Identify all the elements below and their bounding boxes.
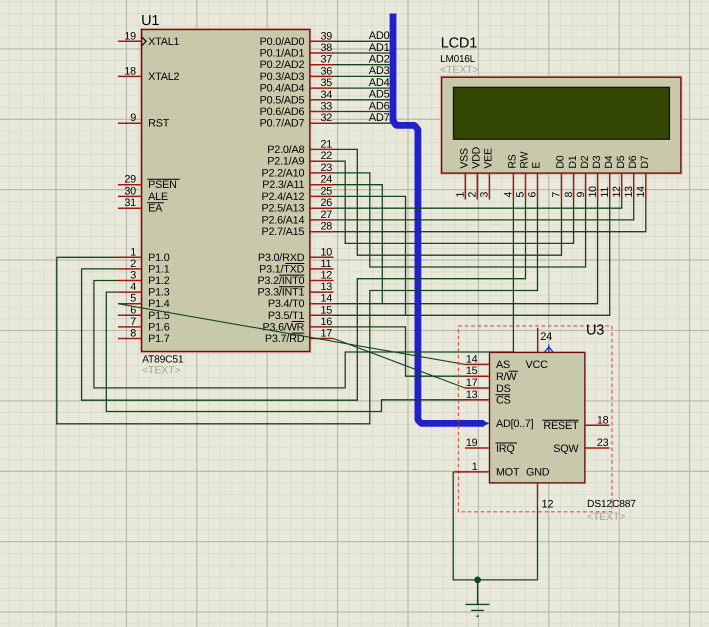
wire AD4 from P0.4 to bus [334,87,392,89]
U1 pin 27 P2.6/A14 stub [310,219,334,221]
LCD pin 7 D0 stub [561,173,563,199]
svg-text:14: 14 [466,353,478,365]
svg-text:2: 2 [130,258,136,270]
U1 pin 31 EA stub [118,207,142,209]
U1 pin 14 P3.4/T0 stub [310,303,334,305]
microcontroller U1 AT89C51 body [140,28,311,352]
svg-text:19: 19 [124,30,136,42]
svg-text:P2.1/A9: P2.1/A9 [267,156,304,168]
svg-text:6: 6 [527,192,539,198]
LCD pin 12 D5 stub [621,173,623,199]
U1 pin 23 P2.2/A10 stub [310,172,334,174]
svg-text:24: 24 [540,331,552,343]
svg-text:3: 3 [479,192,491,198]
svg-text:P2.7/A15: P2.7/A15 [261,226,304,238]
LCD1 screen [454,87,670,139]
svg-text:4: 4 [503,192,515,198]
svg-text:GND: GND [526,467,550,479]
svg-text:13: 13 [321,281,333,293]
U1 pin 37 P0.2/AD2 stub [310,64,334,66]
svg-text:P3.5/T1: P3.5/T1 [268,310,305,322]
svg-text:32: 32 [321,112,333,124]
svg-text:28: 28 [321,221,333,233]
LCD pin 2 VDD stub [476,173,478,199]
svg-text:P2.3/A11: P2.3/A11 [262,179,304,191]
wire P1.1 loop to LCD RW [82,200,526,401]
LCD pin 10 D3 stub [597,173,599,199]
wire AD5 from P0.5 to bus [334,99,392,101]
U1 pin 1 P1.0 stub [118,256,142,258]
U1 pin 25 P2.4/A12 stub [310,195,334,197]
svg-text:8: 8 [130,328,136,340]
svg-text:13: 13 [466,389,478,401]
svg-text:AD4: AD4 [369,77,390,89]
U1 pin 33 P0.6/AD6 stub [310,111,334,113]
U1 pin 17 P3.7/RD stub [310,338,334,340]
svg-text:5: 5 [130,293,136,305]
svg-text:MOT: MOT [496,467,520,479]
svg-text:24: 24 [321,174,333,186]
svg-text:11: 11 [321,258,332,270]
svg-text:R/W: R/W [496,371,517,383]
svg-text:DS: DS [496,383,511,395]
U3 pin 19 IRQ stub [465,447,490,449]
U1 pin 11 P3.1/TXD stub [310,268,334,270]
wire P2 to LCD D3: right, down at x=382.3, level y=303.7 [334,185,598,304]
U1 pin 36 P0.3/AD3 stub [310,75,334,77]
svg-text:P1.3: P1.3 [148,287,170,299]
svg-text:E: E [531,162,543,169]
wire P3.5/T1 to LCD D4 level [334,314,406,316]
svg-text:D4: D4 [603,155,615,168]
svg-text:P3.4/T0: P3.4/T0 [268,298,305,310]
svg-text:P2.5/A13: P2.5/A13 [261,203,304,215]
svg-text:AD3: AD3 [369,65,390,77]
wire AD0 from P0.0 to bus [334,40,392,42]
svg-text:12: 12 [611,186,623,198]
svg-text:D1: D1 [567,155,579,168]
svg-text:1: 1 [455,192,467,198]
svg-text:P0.1/AD1: P0.1/AD1 [260,48,305,60]
svg-text:P1.6: P1.6 [148,321,170,333]
svg-text:P1.7: P1.7 [148,333,170,345]
wire P2 to LCD D2: right, down at x=369.8, level y=267.0 [334,173,586,267]
svg-text:AD6: AD6 [369,100,390,112]
LCD pin 1 VSS stub [464,173,466,199]
svg-text:DS12C887: DS12C887 [587,499,636,510]
svg-text:LCD1: LCD1 [441,36,477,52]
wire P2.7 straight to LCD D7 [334,200,646,232]
U1 pin 10 P3.0/RXD stub [310,256,334,258]
svg-text:23: 23 [597,437,609,449]
svg-text:23: 23 [321,162,333,174]
U3 pin 18 RESET stub [585,424,610,426]
U1 pin 2 P1.1 stub [118,268,142,270]
U3 selection dashed box [458,326,612,512]
svg-text:11: 11 [599,187,611,198]
wire diagonal P1.4 to U3 AS [118,304,465,365]
wire U3 MOT to ground rail [453,472,537,580]
svg-text:31: 31 [124,197,136,209]
U1 pin 19 XTAL1 stub [118,40,142,42]
svg-text:AS: AS [496,359,510,371]
svg-text:P2.0/A8: P2.0/A8 [267,144,304,156]
svg-text:15: 15 [321,304,333,316]
U1 pin 26 P2.5/A13 stub [310,207,334,209]
svg-text:15: 15 [466,365,478,377]
svg-text:EA: EA [148,203,163,215]
svg-text:8: 8 [563,192,575,198]
svg-text:P0.7/AD7: P0.7/AD7 [260,118,305,130]
svg-text:29: 29 [124,174,136,186]
LCD pin 9 D2 stub [585,173,587,199]
svg-text:AD7: AD7 [369,112,390,124]
junction dot on ground rail [474,577,481,584]
svg-text:9: 9 [575,192,587,198]
svg-text:36: 36 [321,65,333,77]
U1 pin 8 P1.7 stub [118,338,142,340]
XTAL1 clock chevron [142,37,147,46]
svg-text:U1: U1 [141,13,159,29]
svg-text:16: 16 [321,316,333,328]
svg-text:P1.1: P1.1 [148,263,170,275]
svg-text:12: 12 [321,270,333,282]
U1 pin 35 P0.4/AD4 stub [310,87,334,89]
svg-text:P0.5/AD5: P0.5/AD5 [260,94,305,106]
U1 pin 18 XTAL2 stub [118,75,142,77]
wire AD1 from P0.1 to bus [334,52,392,54]
svg-text:ALE: ALE [148,191,168,203]
svg-text:RS: RS [507,154,519,168]
svg-text:7: 7 [551,192,563,198]
U3 pin 24 VCC stub [537,328,539,353]
svg-text:14: 14 [321,293,333,305]
U1 pin 32 P0.7/AD7 stub [310,122,334,124]
svg-text:9: 9 [130,112,136,124]
LCD pin 8 D1 stub [573,173,575,199]
svg-text:IRQ: IRQ [496,443,515,455]
svg-text:1: 1 [130,246,136,258]
svg-text:CS: CS [496,395,511,407]
svg-text:10: 10 [321,246,333,258]
svg-text:P0.2/AD2: P0.2/AD2 [260,59,305,71]
svg-text:30: 30 [124,185,136,197]
power symbol at VCC [545,345,553,353]
svg-text:RST: RST [148,118,170,130]
wire P2 to LCD D1: right, down at x=345.2, level y=243.4 [334,161,574,243]
svg-text:P1.0: P1.0 [148,252,170,264]
U3 pin 23 SQW stub [585,447,610,449]
bus entry arrow into U3 AD[0..7] [482,420,490,427]
svg-text:26: 26 [321,197,333,209]
svg-text:P3.6/WR: P3.6/WR [262,321,304,333]
U1 pin 5 P1.4 stub [118,303,142,305]
U1 pin 9 RST stub [118,122,142,124]
svg-text:13: 13 [623,186,635,198]
svg-text:P0.0/AD0: P0.0/AD0 [260,36,305,48]
svg-text:P1.4: P1.4 [148,298,170,310]
svg-text:D5: D5 [615,155,627,168]
ground symbol [466,580,490,616]
U1 pin 4 P1.3 stub [118,291,142,293]
svg-text:AD[0..7]: AD[0..7] [496,418,534,430]
svg-text:RW: RW [519,151,531,168]
svg-text:<TEXT>: <TEXT> [142,365,180,377]
wire P1.3 loop to U3 CS [106,292,465,411]
svg-text:SQW: SQW [553,443,579,455]
U1 pin 16 P3.6/WR stub [310,326,334,328]
wire diagonal P3.7/RD to U3 DS [334,339,466,389]
svg-text:10: 10 [587,186,599,198]
wire U3 GND pin down to ground rail [537,498,539,580]
svg-text:<TEXT>: <TEXT> [440,64,478,76]
wire P1.0 loop to LCD E [57,200,538,424]
U3 pin 14 AS stub [465,363,490,365]
svg-text:19: 19 [466,437,478,449]
svg-text:VCC: VCC [526,359,549,371]
svg-text:PSEN: PSEN [148,179,177,191]
U3 pin 17 DS stub [465,387,490,389]
svg-text:3: 3 [130,270,136,282]
svg-text:D6: D6 [627,155,639,168]
svg-text:AD1: AD1 [369,42,390,54]
svg-text:P3.0/RXD: P3.0/RXD [258,252,305,264]
bus AD[0..7] main trunk [393,14,484,424]
wire P1.2 loop to LCD RS [94,200,514,388]
svg-text:33: 33 [321,101,333,113]
wire AD3 from P0.3 to bus [334,75,392,77]
svg-text:5: 5 [515,192,527,198]
U1 pin 3 P1.2 stub [118,280,142,282]
U1 pin 38 P0.1/AD1 stub [310,52,334,54]
LCD pin 5 RW stub [525,173,527,199]
svg-text:VEE: VEE [483,148,495,169]
svg-text:12: 12 [542,499,554,511]
svg-text:39: 39 [321,30,333,42]
svg-text:D7: D7 [639,155,651,168]
U1 pin 13 P3.3/INT1 stub [310,291,334,293]
U1 pin 24 P2.3/A11 stub [310,184,334,186]
U1 pin 34 P0.5/AD5 stub [310,99,334,101]
U1 pin 28 P2.7/A15 stub [310,231,334,233]
svg-text:P3.3/INT1: P3.3/INT1 [257,287,304,299]
svg-text:38: 38 [321,42,333,54]
wire AD2 from P0.2 to bus [334,64,392,66]
svg-text:P2.4/A12: P2.4/A12 [261,191,304,203]
LCD pin 3 VEE stub [488,173,490,199]
svg-text:VDD: VDD [471,146,483,168]
svg-text:P1.2: P1.2 [148,275,170,287]
svg-text:2: 2 [467,192,479,198]
svg-text:<TEXT>: <TEXT> [587,511,625,523]
svg-text:37: 37 [321,54,333,66]
LCD pin 11 D4 stub [609,173,611,199]
svg-text:P2.2/A10: P2.2/A10 [261,167,304,179]
U1 pin 29 PSEN stub [118,184,142,186]
svg-text:27: 27 [321,209,333,221]
svg-text:18: 18 [597,414,609,426]
U1 pin 15 P3.5/T1 stub [310,314,334,316]
svg-text:14: 14 [635,186,647,198]
U3 pin 15 R/W stub [465,375,490,377]
U1 pin 39 P0.0/AD0 stub [310,40,334,42]
svg-text:D2: D2 [579,155,591,168]
U1 pin 6 P1.5 stub [118,314,142,316]
U1 pin 12 P3.2/INT0 stub [310,280,334,282]
wire P3.4/T0 to LCD D3 level [334,303,383,305]
svg-text:XTAL1: XTAL1 [148,36,179,48]
svg-text:P1.5: P1.5 [148,310,170,322]
svg-text:P3.2/INT0: P3.2/INT0 [257,275,304,287]
LCD1 body [440,76,682,174]
U3 body DS12C887 [490,352,585,483]
wire P2 to LCD D4: right, down at x=405.5, level y=315.3 [334,196,610,315]
LCD pin 14 D7 stub [645,173,647,199]
U1 pin 7 P1.6 stub [118,326,142,328]
svg-text:AD0: AD0 [369,30,390,42]
svg-text:4: 4 [130,281,136,293]
svg-text:18: 18 [124,65,136,77]
svg-text:U3: U3 [586,323,604,339]
svg-text:22: 22 [321,150,333,162]
svg-text:1: 1 [472,461,478,473]
U1 pin 30 ALE stub [118,195,142,197]
svg-text:VSS: VSS [459,148,471,169]
svg-text:7: 7 [130,316,136,328]
svg-text:P0.6/AD6: P0.6/AD6 [260,106,305,118]
U1 pin 21 P2.0/A8 stub [310,148,334,150]
svg-text:AD5: AD5 [369,89,390,101]
svg-text:D3: D3 [591,155,603,168]
svg-text:25: 25 [321,185,333,197]
svg-text:XTAL2: XTAL2 [148,71,179,83]
svg-text:P3.1/TXD: P3.1/TXD [259,263,305,275]
U1 pin 22 P2.1/A9 stub [310,160,334,162]
svg-text:D0: D0 [555,155,567,168]
svg-text:P2.6/A14: P2.6/A14 [261,214,304,226]
svg-text:17: 17 [321,328,333,340]
U3 pin 12 GND stub [537,483,539,499]
wire P2.5 straight to LCD D5 [334,200,622,209]
wire P2 to LCD D0: right, down at x=357.3, level y=255.2 [334,149,562,255]
wire AD7 from P0.7 to bus [334,122,392,124]
U3 pin 1 MOT stub [465,471,490,473]
svg-text:AD2: AD2 [369,54,390,66]
wire P2.6 straight to LCD D6 [334,200,634,220]
U3 pin 13 CS stub [465,399,490,401]
svg-text:17: 17 [466,377,478,389]
LCD pin 13 D6 stub [633,173,635,199]
LCD pin 6 E stub [537,173,539,199]
svg-text:35: 35 [321,77,333,89]
svg-text:P0.3/AD3: P0.3/AD3 [260,71,305,83]
wire P3.6/WR to U3 R/W [334,327,466,376]
svg-text:P0.4/AD4: P0.4/AD4 [260,83,305,95]
wire AD6 from P0.6 to bus [334,111,392,113]
svg-text:RESET: RESET [543,420,579,432]
LCD pin 4 RS stub [512,173,514,199]
svg-text:34: 34 [321,89,333,101]
svg-text:21: 21 [321,138,333,150]
